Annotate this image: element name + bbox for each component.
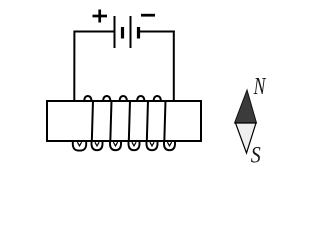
battery B1 plate 3 (long) [130,16,132,48]
coil bottom loop 2 [92,141,103,151]
coil bottom loop 1 [73,141,86,151]
minus sign label (- terminal) [141,14,155,17]
coil turn 2 front strand [110,100,111,142]
coil bottom loop 3 [110,141,121,151]
compass needle south half (light) [236,123,257,153]
coil bottom loop 4 [129,141,140,151]
coil turn 2 top arch [103,96,111,101]
coil bottom loop 6 [164,141,175,151]
svg-text:N: N [253,73,266,100]
coil turn 1 front strand [92,100,93,142]
battery B1 plate 4 (short thick) [137,27,140,39]
iron core bar [47,101,201,141]
battery B1 plate 1 (long) [114,16,116,48]
coil turn 5 top arch [154,96,162,101]
coil turn 4 front strand [147,100,148,142]
wire: left vertical drop, becomes coil front strand 1 [73,31,74,143]
battery B1 plate 2 (short thick) [121,27,124,39]
coil turn 5 front strand [164,100,165,142]
coil turn 1 top arch [84,96,92,101]
compass needle north half (dark) [235,90,257,123]
coil turn 3 top arch [120,96,128,101]
wire: right vertical drop to top of core (continues hidden behind core) [173,31,175,102]
wire: left horizontal from corner to battery + plate [74,31,114,33]
wire: right horizontal from battery - plate to corner [140,31,175,33]
plus sign label (+ terminal) [93,10,108,23]
coil bottom loop 5 [147,141,158,151]
coil turn 3 front strand [129,100,130,142]
coil turn 4 top arch [137,96,145,101]
svg-text:S: S [251,142,261,168]
